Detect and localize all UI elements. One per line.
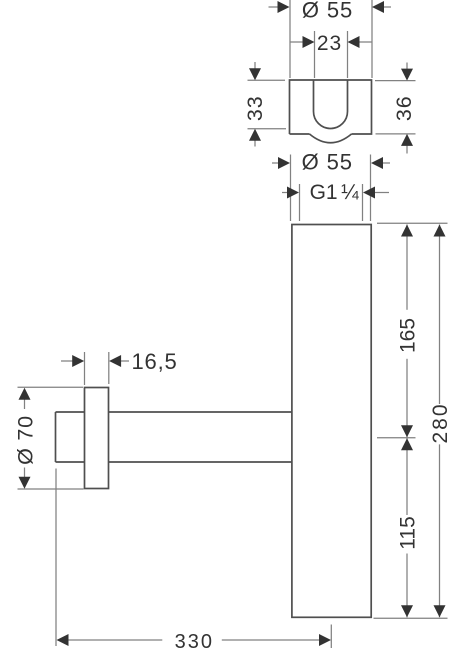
svg-text:Ø 70: Ø 70 <box>14 415 38 465</box>
svg-text:165: 165 <box>396 318 419 353</box>
svg-text:16,5: 16,5 <box>132 349 178 374</box>
svg-text:Ø 55: Ø 55 <box>302 0 353 23</box>
svg-text:115: 115 <box>396 516 419 549</box>
svg-text:33: 33 <box>243 95 267 121</box>
svg-text:36: 36 <box>392 95 416 121</box>
svg-text:330: 330 <box>175 631 214 652</box>
svg-text:280: 280 <box>429 402 452 443</box>
svg-text:G1¼: G1¼ <box>310 181 360 204</box>
svg-text:23: 23 <box>317 32 342 55</box>
svg-text:Ø 55: Ø 55 <box>302 150 353 175</box>
